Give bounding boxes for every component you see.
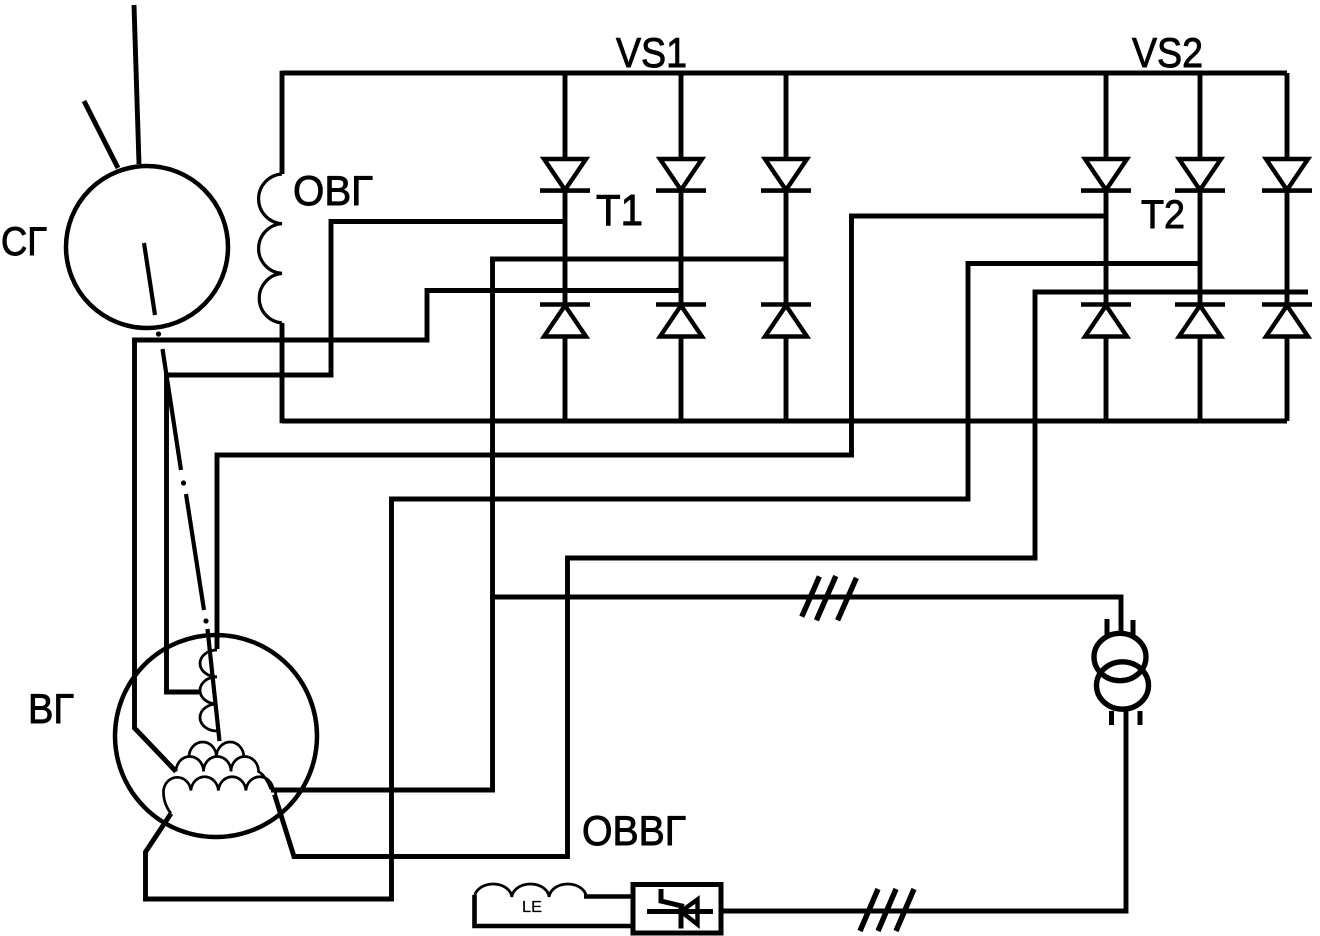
bottom DC bus <box>282 419 1287 424</box>
thyristor VS2 phase-2 upper <box>1175 73 1225 191</box>
wire CG bottom to T1 phase-2 <box>135 291 682 772</box>
thyristor VS2 phase-3 column wire <box>1285 191 1290 305</box>
generator VG circle <box>115 635 317 837</box>
wire transformer bottom to thyristor box <box>721 709 1126 911</box>
VG inner vertical coil <box>200 650 217 731</box>
svg-text:T1: T1 <box>596 186 643 235</box>
exciter winding LE top connector <box>584 894 633 899</box>
transformer upper winding <box>1094 633 1146 680</box>
transformer top-right pin <box>1131 620 1136 635</box>
excitation supply wire from node to transformer <box>493 597 1122 634</box>
thyristor VS1 phase-3 lower <box>761 305 811 422</box>
thyristor VS1 phase-1 lower <box>540 305 590 422</box>
exciter winding LE frame <box>475 895 634 926</box>
thyristor VS1 phase-1 column wire <box>563 191 568 305</box>
svg-text:ВГ: ВГ <box>28 685 74 732</box>
svg-text:VS1: VS1 <box>616 29 687 76</box>
svg-text:ОВГ: ОВГ <box>293 167 373 214</box>
thyristor VS1 phase-2 column wire <box>679 191 684 305</box>
shaft dash-dot link CG to VG <box>144 243 220 741</box>
svg-text:T2: T2 <box>1141 193 1185 237</box>
svg-text:LE: LE <box>522 899 542 916</box>
thyristor symbol triangle <box>681 900 698 925</box>
thyristor symbol cathode bar <box>679 904 684 929</box>
VG fan winding row 2 <box>176 757 271 790</box>
thyristor VS1 phase-2 upper <box>656 73 706 191</box>
thyristor VS2 phase-3 lower <box>1262 305 1312 422</box>
thyristor VS1 phase-1 upper <box>540 73 590 191</box>
thyristor VS2 phase-1 column wire <box>1104 191 1109 305</box>
wire VG coil top to T2 phase-1 <box>217 216 1106 649</box>
transformer lower winding <box>1097 662 1149 709</box>
svg-text:ОВВГ: ОВВГ <box>582 807 686 854</box>
generator CG circle <box>66 166 228 328</box>
three-phase slash mark 1 <box>802 576 857 620</box>
CG drive shaft diagonal line <box>84 101 118 168</box>
thyristor VS2 phase-2 column wire <box>1198 191 1203 305</box>
VG fan winding row 3 <box>163 777 275 814</box>
wire VG fan bottom-right to T2 phase-3 <box>275 292 1309 857</box>
thyristor VS1 phase-3 upper <box>761 73 811 191</box>
transformer top-left pin <box>1105 619 1110 635</box>
thyristor VS1 phase-2 lower <box>656 305 706 422</box>
thyristor symbol wire <box>647 909 713 914</box>
thyristor VS1 phase-3 column wire <box>784 191 789 305</box>
exciter winding LE coil <box>475 884 587 897</box>
three-phase slash mark 2 <box>860 889 914 931</box>
CG drive shaft vertical line <box>134 5 139 164</box>
wire VG armature coil to T1 phase-1 <box>167 222 566 693</box>
thyristor VS2 phase-3 upper <box>1262 73 1312 191</box>
field winding OVG coil <box>259 174 282 323</box>
thyristor VS2 phase-1 upper <box>1081 73 1131 191</box>
controlled rectifier box <box>633 885 721 934</box>
transformer bottom-right pin <box>1138 711 1143 725</box>
thyristor symbol gate <box>661 889 684 907</box>
wire VG fan bottom-left to T2 phase-2 <box>146 264 1201 900</box>
svg-text:СГ: СГ <box>1 220 47 264</box>
svg-text:VS2: VS2 <box>1132 29 1203 76</box>
thyristor VS2 phase-2 lower <box>1175 305 1225 422</box>
wire VG fan mid-right to T1 phase-3 <box>271 259 786 790</box>
transformer bottom-left pin <box>1109 711 1114 725</box>
field winding OVG top lead <box>280 71 285 174</box>
top DC bus <box>282 71 1287 76</box>
VG fan winding row 1 <box>189 742 244 757</box>
field winding OVG bottom lead <box>280 323 285 423</box>
thyristor VS2 phase-1 lower <box>1081 305 1131 422</box>
